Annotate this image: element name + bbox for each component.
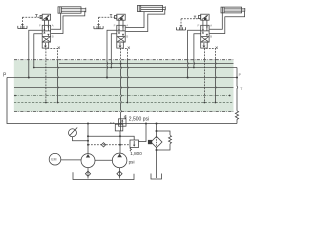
svg-text:1,800: 1,800: [130, 151, 142, 156]
svg-text:EM: EM: [51, 158, 56, 162]
svg-text:B: B: [210, 35, 212, 39]
svg-text:2,500 psi: 2,500 psi: [129, 117, 149, 123]
svg-text:B: B: [52, 35, 54, 39]
svg-text:F: F: [114, 24, 116, 28]
svg-text:A: A: [52, 24, 54, 28]
svg-text:A: A: [210, 24, 212, 28]
svg-text:F: F: [39, 24, 41, 28]
svg-text:psi: psi: [129, 159, 135, 164]
svg-text:T: T: [240, 87, 242, 91]
svg-text:B: B: [126, 35, 128, 39]
svg-text:A: A: [126, 24, 128, 28]
svg-text:F: F: [198, 24, 200, 28]
